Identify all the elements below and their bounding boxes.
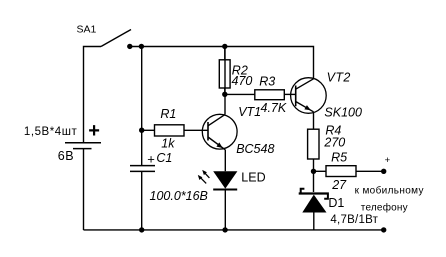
svg-text:VT2: VT2 [327, 70, 351, 84]
svg-text:BC548: BC548 [236, 142, 274, 156]
svg-text:470: 470 [232, 74, 253, 88]
svg-text:100.0*16В: 100.0*16В [150, 189, 208, 203]
svg-text:R5: R5 [331, 151, 347, 165]
svg-text:SK100: SK100 [324, 105, 362, 119]
svg-text:VT1: VT1 [238, 105, 261, 119]
svg-text:D1: D1 [328, 196, 344, 210]
svg-text:+: + [88, 120, 100, 142]
svg-text:к мобильному: к мобильному [355, 184, 424, 196]
svg-text:R1: R1 [160, 107, 176, 121]
svg-text:1k: 1k [161, 137, 175, 151]
svg-text:R3: R3 [259, 74, 275, 88]
svg-text:LED: LED [241, 170, 265, 184]
svg-text:1,5В*4шт: 1,5В*4шт [24, 126, 78, 138]
svg-text:27: 27 [331, 178, 347, 192]
svg-text:4.7K: 4.7K [261, 101, 287, 115]
svg-text:+: + [147, 151, 155, 166]
svg-text:C1: C1 [156, 151, 172, 165]
svg-text:4,7В/1Вт: 4,7В/1Вт [330, 214, 378, 226]
svg-text:телефону: телефону [361, 202, 408, 214]
svg-text:270: 270 [323, 136, 345, 150]
svg-text:SA1: SA1 [77, 23, 97, 35]
svg-text:6В: 6В [58, 149, 74, 163]
svg-text:+: + [385, 155, 391, 166]
